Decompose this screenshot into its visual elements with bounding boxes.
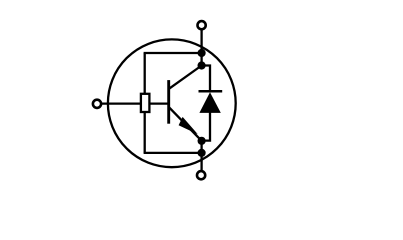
collector terminal C (open circle) xyxy=(198,21,206,29)
wire loop left vertical upper xyxy=(144,53,146,94)
diode D1 cathode bar xyxy=(199,90,223,93)
junction node emitter/diode xyxy=(198,137,206,145)
wire loop top horizontal xyxy=(144,52,202,54)
diode D1 anode triangle xyxy=(199,92,220,113)
wire gate box to transistor base bar xyxy=(149,102,168,104)
transistor Q1 emitter lead xyxy=(169,108,201,141)
junction node emitter/loop xyxy=(198,149,206,157)
junction node collector/diode xyxy=(198,61,206,69)
emitter terminal E (open circle) xyxy=(197,171,205,179)
transistor Q1 collector lead xyxy=(169,66,201,89)
gate terminal G (open circle) xyxy=(93,100,101,108)
wire gate terminal to gate box xyxy=(101,102,140,104)
wire loop bottom horizontal xyxy=(144,152,202,154)
transistor Q1 emitter arrowhead xyxy=(179,117,198,134)
transistor Q1 base bar xyxy=(167,80,170,124)
gate box (isolated-gate rectangle) xyxy=(141,94,150,112)
wire collector terminal down to junctions xyxy=(200,30,202,67)
wire diode branch bottom jog xyxy=(202,112,210,141)
wire loop left vertical lower xyxy=(144,112,146,153)
wire diode branch top jog xyxy=(202,66,210,93)
IGBT module outline circle xyxy=(108,39,236,167)
wire emitter junction to bottom junction xyxy=(200,141,202,171)
junction node collector/loop xyxy=(198,49,206,57)
